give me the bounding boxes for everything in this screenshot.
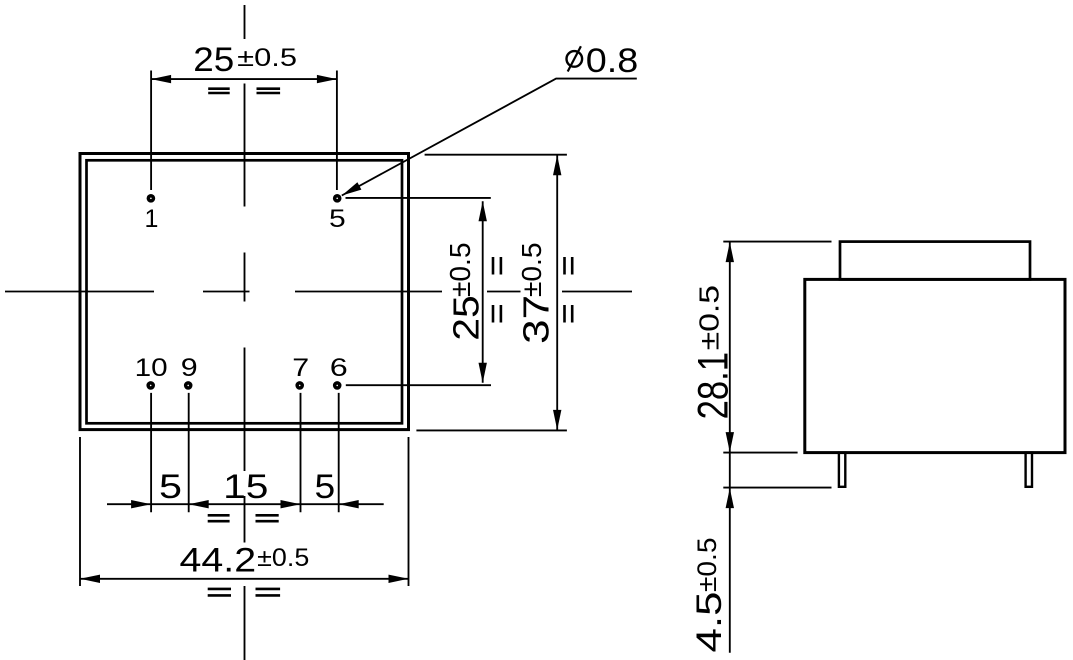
svg-text:±0.5: ±0.5 [257, 544, 309, 572]
svg-text:0.8: 0.8 [586, 42, 639, 80]
svg-text:±0.5: ±0.5 [692, 538, 722, 593]
svg-text:25: 25 [193, 41, 234, 79]
svg-text:28.1: 28.1 [690, 352, 738, 420]
svg-text:7: 7 [292, 354, 309, 382]
svg-text:15: 15 [223, 468, 268, 506]
svg-text:9: 9 [181, 354, 198, 382]
svg-text:4.5: 4.5 [690, 592, 729, 653]
svg-text:25: 25 [446, 295, 487, 341]
svg-text:±0.5: ±0.5 [693, 285, 724, 351]
svg-text:±0.5: ±0.5 [237, 44, 297, 72]
svg-text:37: 37 [516, 295, 557, 344]
svg-text:±0.5: ±0.5 [445, 243, 477, 298]
svg-text:5: 5 [329, 205, 346, 233]
svg-text:±0.5: ±0.5 [516, 243, 547, 298]
svg-text:1: 1 [145, 205, 159, 233]
svg-text:5: 5 [315, 468, 336, 506]
svg-text:44.2: 44.2 [180, 541, 257, 579]
svg-text:10: 10 [135, 354, 168, 382]
svg-text:6: 6 [330, 354, 348, 382]
svg-text:5: 5 [159, 468, 182, 506]
